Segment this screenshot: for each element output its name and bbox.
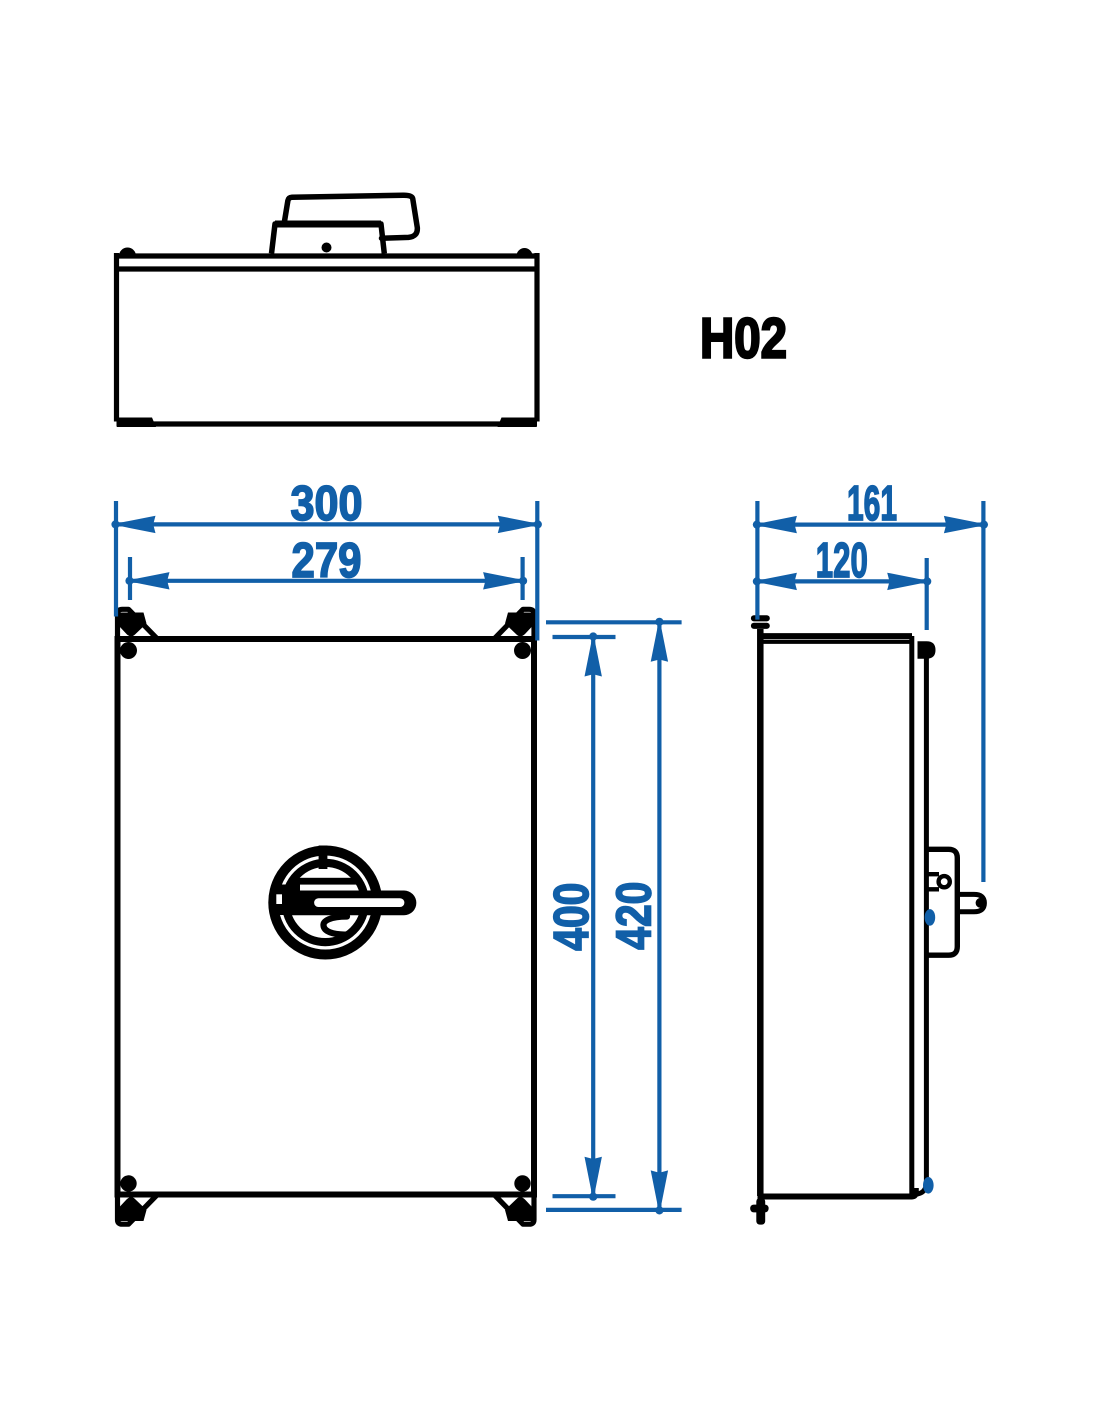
svg-text:400: 400: [545, 883, 599, 951]
side view shaft dot: [976, 898, 986, 908]
side view top tab mark: [751, 615, 770, 629]
top view handle base: [272, 224, 385, 254]
rotary handle chord bar: [294, 878, 360, 885]
svg-text:279: 279: [292, 534, 362, 588]
top view corner bump left: [119, 248, 136, 257]
side view body: [758, 629, 916, 1197]
svg-text:300: 300: [291, 477, 363, 531]
rotary handle inner ring: [286, 863, 365, 942]
side view lid edge: [915, 646, 927, 1194]
front view screw head top-left: [120, 642, 137, 659]
front view bottom-right tab: [495, 1194, 534, 1225]
dimension 161: [757, 501, 983, 882]
side view seal dot lower: [923, 1177, 934, 1194]
top view handle grip: [284, 195, 417, 238]
top view corner bump right: [517, 248, 533, 256]
front view bottom-left tab: [118, 1194, 157, 1225]
rotary handle outer ring: [273, 851, 377, 955]
rotary handle lever: [284, 891, 416, 916]
front view top-left tab: [118, 609, 157, 640]
side view shaft: [957, 894, 984, 911]
dimension 279: [130, 557, 523, 600]
side view switch block: [927, 849, 958, 955]
rotary handle top indicator: [319, 846, 328, 870]
svg-text:H02: H02: [700, 307, 787, 370]
front view top-right tab: [495, 609, 534, 640]
top view bottom corner feet: [117, 418, 537, 428]
side view bottom tab cross: [750, 1198, 768, 1225]
side view seal dot upper: [925, 909, 936, 926]
dimension 400: [553, 637, 616, 1196]
side view hinge bump: [918, 641, 936, 658]
front view box: [118, 639, 535, 1195]
rotary handle bottom hook: [323, 917, 347, 935]
front view screw head top-right: [514, 642, 531, 659]
dimension 120: [757, 558, 926, 630]
svg-text:420: 420: [608, 882, 662, 950]
dimension 300: [116, 501, 537, 641]
top view body: [115, 253, 539, 424]
svg-text:161: 161: [847, 477, 897, 531]
dimension 420: [546, 622, 682, 1210]
front view screw head bottom-left: [120, 1175, 136, 1191]
rotary handle left wedge: [272, 885, 300, 916]
svg-text:120: 120: [816, 534, 868, 588]
side view latch detail: [927, 874, 940, 889]
top view handle base dot: [322, 243, 332, 253]
rotary handle left notch: [276, 894, 282, 904]
front view screw head bottom-right: [514, 1175, 530, 1191]
